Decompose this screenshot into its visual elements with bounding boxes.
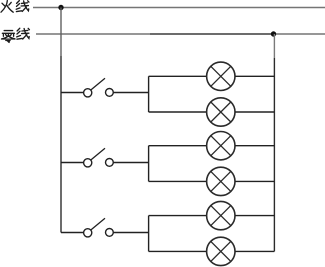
lamp pair 2 connector vertical xyxy=(148,146,150,182)
wire: right vertical bus lower dark segment xyxy=(273,58,275,251)
lamp L1 xyxy=(207,62,235,90)
wire from lamp L3 to right bus xyxy=(235,145,274,147)
switch S2 lever xyxy=(91,148,105,160)
lamp L5 xyxy=(207,201,235,229)
branch 1 wire from bus to switch S1 xyxy=(61,92,84,94)
lamp pair 1 connector vertical xyxy=(148,76,150,112)
label 火线 (live wire text) xyxy=(1,1,29,13)
lamp L3 xyxy=(207,132,235,160)
wire to lamp L2 xyxy=(149,111,207,113)
lamp L2 xyxy=(207,98,235,126)
switch S3 right contact xyxy=(106,229,114,237)
branch 1 wire from switch S1 to lamp pair xyxy=(113,92,148,94)
switch S3 left contact xyxy=(84,229,92,237)
wire to lamp L3 xyxy=(149,145,207,147)
branch 2 wire from switch S2 to lamp pair xyxy=(113,162,148,164)
wire: live line (horizontal) xyxy=(33,7,325,9)
wire to lamp L6 xyxy=(149,250,207,252)
branch 3 wire from bus to switch S3 xyxy=(61,232,84,234)
lamp pair 3 connector vertical xyxy=(148,216,150,252)
wire: neutral line left grey segment xyxy=(36,33,150,35)
wire: left vertical bus lower dark segment xyxy=(60,56,62,233)
wire from lamp L6 to right bus xyxy=(235,250,274,252)
wire from lamp L1 to right bus xyxy=(235,75,274,77)
label 零线 (neutral wire text) xyxy=(1,28,29,42)
switch S3 lever xyxy=(91,218,105,230)
branch 3 wire from switch S3 to lamp pair xyxy=(113,232,148,234)
branch 2 wire from bus to switch S2 xyxy=(61,162,84,164)
junction dot on live line xyxy=(58,5,63,10)
switch S1 left contact xyxy=(84,89,92,97)
lamp L4 xyxy=(207,167,235,195)
wire: right vertical bus upper grey segment xyxy=(273,34,275,58)
wire: left vertical bus upper grey segment xyxy=(60,8,62,57)
wire to lamp L4 xyxy=(149,180,207,182)
wire to lamp L1 xyxy=(149,75,207,77)
wire from lamp L2 to right bus xyxy=(235,111,274,113)
switch S1 right contact xyxy=(106,89,114,97)
switch S1 lever xyxy=(91,78,105,90)
wire from lamp L4 to right bus xyxy=(235,180,274,182)
switch S2 right contact xyxy=(106,159,114,167)
switch S2 left contact xyxy=(84,159,92,167)
wire from lamp L5 to right bus xyxy=(235,215,274,217)
wire: neutral line middle dark segment xyxy=(150,33,274,35)
wire to lamp L5 xyxy=(149,215,207,217)
wire: neutral line right grey segment xyxy=(274,33,325,35)
lamp L6 xyxy=(207,237,235,265)
junction dot on neutral line xyxy=(271,31,276,36)
